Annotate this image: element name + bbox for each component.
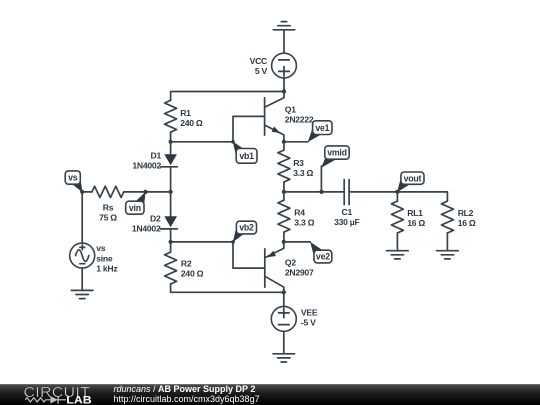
flag vout: [397, 172, 424, 192]
svg-text:1 kHz: 1 kHz: [96, 264, 117, 274]
wire bottom rail R2 to Q2 collector: [171, 284, 284, 292]
svg-text:LAB: LAB: [66, 394, 92, 405]
svg-text:330 µF: 330 µF: [334, 217, 359, 227]
node vb1 row junction at R1/D1: [169, 140, 173, 144]
svg-text:http://circuitlab.com/cmx3dy6q: http://circuitlab.com/cmx3dy6qb38g7: [114, 394, 260, 404]
flag vmid: [321, 146, 349, 192]
footer title line: [114, 384, 256, 394]
svg-text:D2: D2: [150, 214, 161, 224]
wire vb2 row to Q2 base: [171, 242, 265, 268]
svg-text:240 Ω: 240 Ω: [181, 269, 204, 279]
svg-text:Q2: Q2: [285, 258, 296, 268]
flag vs: [65, 171, 82, 192]
svg-text:1N4002: 1N4002: [132, 161, 161, 171]
flag ve1: [308, 121, 332, 142]
svg-text:-5 V: -5 V: [301, 318, 316, 328]
svg-text:C1: C1: [342, 207, 353, 217]
logo resistor zigzag: [25, 398, 50, 402]
diode D2 1N4002: [132, 192, 177, 242]
svg-text:R2: R2: [181, 259, 192, 269]
diode D1 1N4002: [132, 142, 177, 192]
logo LAB text: [66, 394, 92, 405]
svg-text:3.3 Ω: 3.3 Ω: [294, 218, 314, 228]
svg-text:vs: vs: [96, 243, 106, 253]
svg-text:R4: R4: [294, 208, 305, 218]
svg-text:rduncans / AB Power Supply DP: rduncans / AB Power Supply DP 2: [114, 384, 256, 394]
node vmid row junction R3/R4: [282, 190, 286, 194]
resistor R3 3.3 ohm: [278, 142, 314, 192]
wire vmid row to C1: [284, 191, 344, 193]
node vb2 tap: [231, 240, 235, 244]
resistor R4 3.3 ohm: [278, 192, 315, 242]
svg-text:Rs: Rs: [103, 203, 114, 213]
wire VEE to ground: [283, 331, 285, 353]
transistor Q1 2N2222: [265, 92, 314, 142]
resistor R2 240 ohm: [165, 242, 204, 284]
svg-text:R3: R3: [293, 158, 304, 168]
resistor Rs 75 ohm: [92, 186, 124, 222]
svg-text:16 Ω: 16 Ω: [407, 218, 425, 228]
footer bar: [0, 384, 540, 405]
wire VCC to top rail junction: [283, 78, 285, 92]
node junction VCC/top-rail: [282, 89, 286, 93]
node vout: [395, 190, 399, 194]
ground below RL1: [387, 251, 409, 259]
node vin: [143, 190, 147, 194]
svg-text:2N2222: 2N2222: [285, 115, 314, 125]
svg-text:1N4002: 1N4002: [132, 224, 161, 234]
node vb2 row junction at D2/R2: [169, 240, 173, 244]
resistor RL1 16 ohm: [391, 192, 425, 251]
logo diode: [50, 396, 66, 404]
capacitor C1 330uF: [334, 180, 359, 227]
wire vs source stem: [81, 192, 83, 243]
svg-text:Q1: Q1: [285, 105, 296, 115]
svg-text:RL1: RL1: [407, 208, 423, 218]
svg-text:sine: sine: [96, 253, 113, 263]
transistor Q2 2N2907: [265, 242, 314, 292]
svg-text:RL2: RL2: [458, 208, 474, 218]
node ve2 junction R4 / Q2 emitter: [282, 240, 286, 244]
node vin/D1/D2 junction: [169, 190, 173, 194]
wire Rs to vin node to D1/D2 column: [124, 191, 171, 193]
svg-text:5 V: 5 V: [255, 66, 268, 76]
svg-text:vb2: vb2: [239, 223, 254, 233]
svg-text:ve2: ve2: [316, 252, 330, 262]
flag ve2: [310, 242, 332, 263]
wire top rail R1 to VCC: [171, 92, 284, 101]
svg-text:VCC: VCC: [250, 56, 267, 66]
svg-text:VEE: VEE: [301, 308, 318, 318]
svg-text:75 Ω: 75 Ω: [99, 213, 117, 223]
svg-text:3.3 Ω: 3.3 Ω: [293, 168, 313, 178]
voltage source VCC 5V: [250, 53, 297, 78]
node ve1 junction Q1 emitter / R3: [282, 140, 286, 144]
ground below VEE: [273, 354, 295, 362]
node junction Q2 collector / VEE / bottom rail: [282, 290, 286, 294]
resistor RL2 16 ohm: [441, 201, 475, 251]
wire vout to RL2 top: [397, 192, 447, 201]
flag vb2: [233, 221, 257, 242]
svg-text:vb1: vb1: [239, 151, 254, 161]
wire vs source to ground: [81, 268, 83, 290]
wire ve1 stub: [284, 141, 308, 143]
svg-text:16 Ω: 16 Ω: [458, 218, 476, 228]
wire vb1 row to Q1 base: [171, 116, 265, 141]
wire vs node to Rs: [82, 191, 92, 193]
svg-text:ve1: ve1: [315, 123, 329, 133]
svg-text:vmid: vmid: [327, 148, 347, 158]
footer url line: [114, 394, 260, 404]
voltage source VEE -5V: [271, 306, 318, 331]
svg-text:vs: vs: [68, 173, 78, 183]
node vs junction: [80, 190, 84, 194]
flag vin: [126, 192, 146, 215]
ground below vs: [71, 290, 93, 298]
node vmid: [319, 190, 323, 194]
svg-text:vin: vin: [129, 203, 141, 213]
svg-text:2N2907: 2N2907: [285, 268, 314, 278]
node vb1 tap: [231, 140, 235, 144]
wire C1 to vout: [349, 191, 397, 193]
wire ve2 stub: [284, 241, 311, 243]
svg-text:240 Ω: 240 Ω: [180, 118, 203, 128]
flag vb1: [233, 142, 257, 164]
logo CIRCUIT text: [24, 384, 91, 401]
svg-text:R1: R1: [180, 108, 191, 118]
voltage source vs sine 1kHz: [70, 243, 118, 274]
resistor R1 240 ohm: [165, 100, 203, 142]
svg-text:vout: vout: [404, 173, 422, 183]
wire to VEE: [283, 292, 285, 306]
ground below RL2: [437, 251, 459, 259]
ground top (above VCC): [273, 22, 295, 54]
svg-text:D1: D1: [151, 151, 162, 161]
